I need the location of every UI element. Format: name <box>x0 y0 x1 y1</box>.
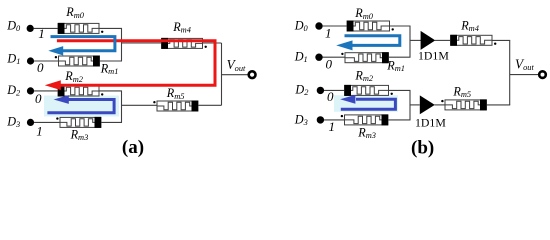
wire cell to diode (b lower) <box>410 104 420 106</box>
blue current path upper cell (b) <box>336 36 400 51</box>
wire D3 to Rm3 <box>34 121 60 123</box>
label Rm5 (b) <box>452 84 471 99</box>
input terminal D1 (b) <box>315 54 322 61</box>
label D0 <box>6 18 21 33</box>
logic value 0 at D2 <box>35 91 42 106</box>
svg-text:0: 0 <box>37 60 44 75</box>
label D3 <box>6 114 20 129</box>
wire Rm2 to cell edge <box>99 90 122 92</box>
wire Rm0 to cell edge (b) <box>390 25 411 27</box>
wire cell to Rm5 <box>122 104 158 106</box>
output terminal Vout (a) <box>249 71 256 78</box>
label D2 (b) <box>294 83 308 98</box>
caption (a) <box>122 137 144 158</box>
logic value 0 at D2 (b) <box>327 89 334 104</box>
svg-text:0: 0 <box>35 91 42 106</box>
caption (b) <box>411 137 434 158</box>
label Rm0 (b) <box>354 6 374 21</box>
label D1 <box>6 51 20 66</box>
logic value 1 at D3 (b) <box>329 119 336 134</box>
label Rm5 <box>166 86 185 101</box>
wire Rm2 to cell edge (b) <box>389 89 411 91</box>
wire to Vout terminal (b) <box>510 74 539 76</box>
label Vout (b) <box>515 57 534 73</box>
cell (a) upper right vertical wire <box>121 28 123 61</box>
wire D0 to Rm0 (b) <box>323 25 348 27</box>
label Rm1 <box>100 61 119 76</box>
label 1D1M (b lower) <box>415 116 446 130</box>
output terminal Vout (b) <box>539 71 546 78</box>
wire diode to Rm4 (b) <box>435 39 451 41</box>
memristor Rm5 (b) <box>441 99 486 110</box>
wire to Vout terminal (a) <box>222 74 248 76</box>
input terminal D3 (b) <box>317 116 324 123</box>
svg-text:1: 1 <box>325 26 332 41</box>
memristor Rm0 (b) <box>347 21 394 32</box>
logic value 1 at D0 <box>38 26 45 41</box>
wire Rm3 to cell edge <box>101 121 122 123</box>
blue current path lower cell (b) <box>340 95 395 109</box>
wire Rm4 to output node <box>203 42 222 44</box>
label Rm2 <box>64 69 83 84</box>
highlight fill lower cell (b) <box>334 95 398 112</box>
wire cell to diode (b upper) <box>410 39 421 41</box>
wire diode to Rm5 (b) <box>435 104 446 106</box>
logic value 1 at D0 (b) <box>325 26 332 41</box>
memristor Rm1 (b) <box>341 52 388 63</box>
wire cell to Rm4 <box>122 42 162 44</box>
input terminal D0 (b) <box>315 22 322 29</box>
label Rm1 (b) <box>386 59 405 74</box>
red current path through Rm0/Rm4 into Rm2 <box>45 41 215 90</box>
output node vertical wire (b) <box>509 40 511 105</box>
logic value 1 at D3 <box>36 123 43 138</box>
label Rm4 (b) <box>460 19 479 34</box>
memristor Rm1 <box>55 56 100 67</box>
output node vertical wire (a) <box>221 43 223 105</box>
wire D3 to Rm3 (b) <box>324 119 345 121</box>
svg-text:0: 0 <box>327 89 334 104</box>
memristor Rm0 <box>58 23 103 34</box>
logic value 0 at D1 (b) <box>326 57 333 72</box>
highlight fill lower cell (a) <box>44 96 119 117</box>
cell (b) lower right vertical wire <box>409 90 411 120</box>
wire Rm3 to cell edge (b) <box>388 119 411 121</box>
svg-text:1: 1 <box>329 119 336 134</box>
memristor Rm2 (b) <box>345 85 393 96</box>
label D0 (b) <box>294 18 309 33</box>
wire D0 to Rm0 <box>34 27 59 29</box>
wire D2 to Rm2 (b) <box>324 89 345 91</box>
label D3 (b) <box>294 112 308 127</box>
input terminal D2 <box>27 87 34 94</box>
input terminal D3 <box>27 119 34 126</box>
wire Rm0 to cell edge <box>99 27 122 29</box>
label Rm3 (b) <box>357 125 376 140</box>
memristor Rm4 (b) <box>451 35 497 46</box>
input terminal D1 <box>27 57 34 64</box>
label D1 (b) <box>294 50 308 65</box>
memristor Rm3 <box>56 117 101 128</box>
wire Rm4 to output node (b) <box>492 39 510 41</box>
cell (a) lower right vertical wire <box>121 91 123 123</box>
memristor Rm2 <box>58 86 103 97</box>
wire D2 to Rm2 <box>34 90 58 92</box>
label Rm2 (b) <box>354 69 373 84</box>
label Vout (a) <box>227 57 246 73</box>
wire D1 to Rm1 <box>34 60 59 62</box>
memristor Rm3 (b) <box>341 114 388 125</box>
wire D1 to Rm1 (b) <box>323 56 346 58</box>
wire Rm1 to cell edge (b) <box>389 56 411 58</box>
wire Rm5 to output node <box>199 104 222 106</box>
wire Rm5 to output node (b) <box>487 104 511 106</box>
input terminal D2 (b) <box>317 87 324 94</box>
svg-text:1: 1 <box>36 123 43 138</box>
label 1D1M (b upper) <box>418 48 449 62</box>
svg-text:0: 0 <box>326 57 333 72</box>
svg-text:1D1M: 1D1M <box>415 116 446 130</box>
blue current path lower cell (a) <box>47 95 114 113</box>
label Rm3 <box>70 128 89 143</box>
memristor Rm4 <box>162 38 207 49</box>
cell (b) upper right vertical wire <box>409 26 411 57</box>
diode 1D1M (b lower) <box>420 95 435 114</box>
memristor Rm5 <box>153 101 198 112</box>
input terminal D0 <box>27 25 34 32</box>
label Rm4 <box>172 20 191 35</box>
svg-text:(b): (b) <box>411 137 434 158</box>
svg-text:(a): (a) <box>122 137 144 158</box>
blue current path upper cell (a) <box>48 37 115 56</box>
logic value 0 at D1 <box>37 60 44 75</box>
label Rm0 <box>65 5 85 20</box>
wire Rm1 to cell edge <box>100 60 123 62</box>
label D2 <box>6 83 20 98</box>
diode 1D1M (b upper) <box>421 31 436 50</box>
svg-text:1D1M: 1D1M <box>418 48 449 62</box>
